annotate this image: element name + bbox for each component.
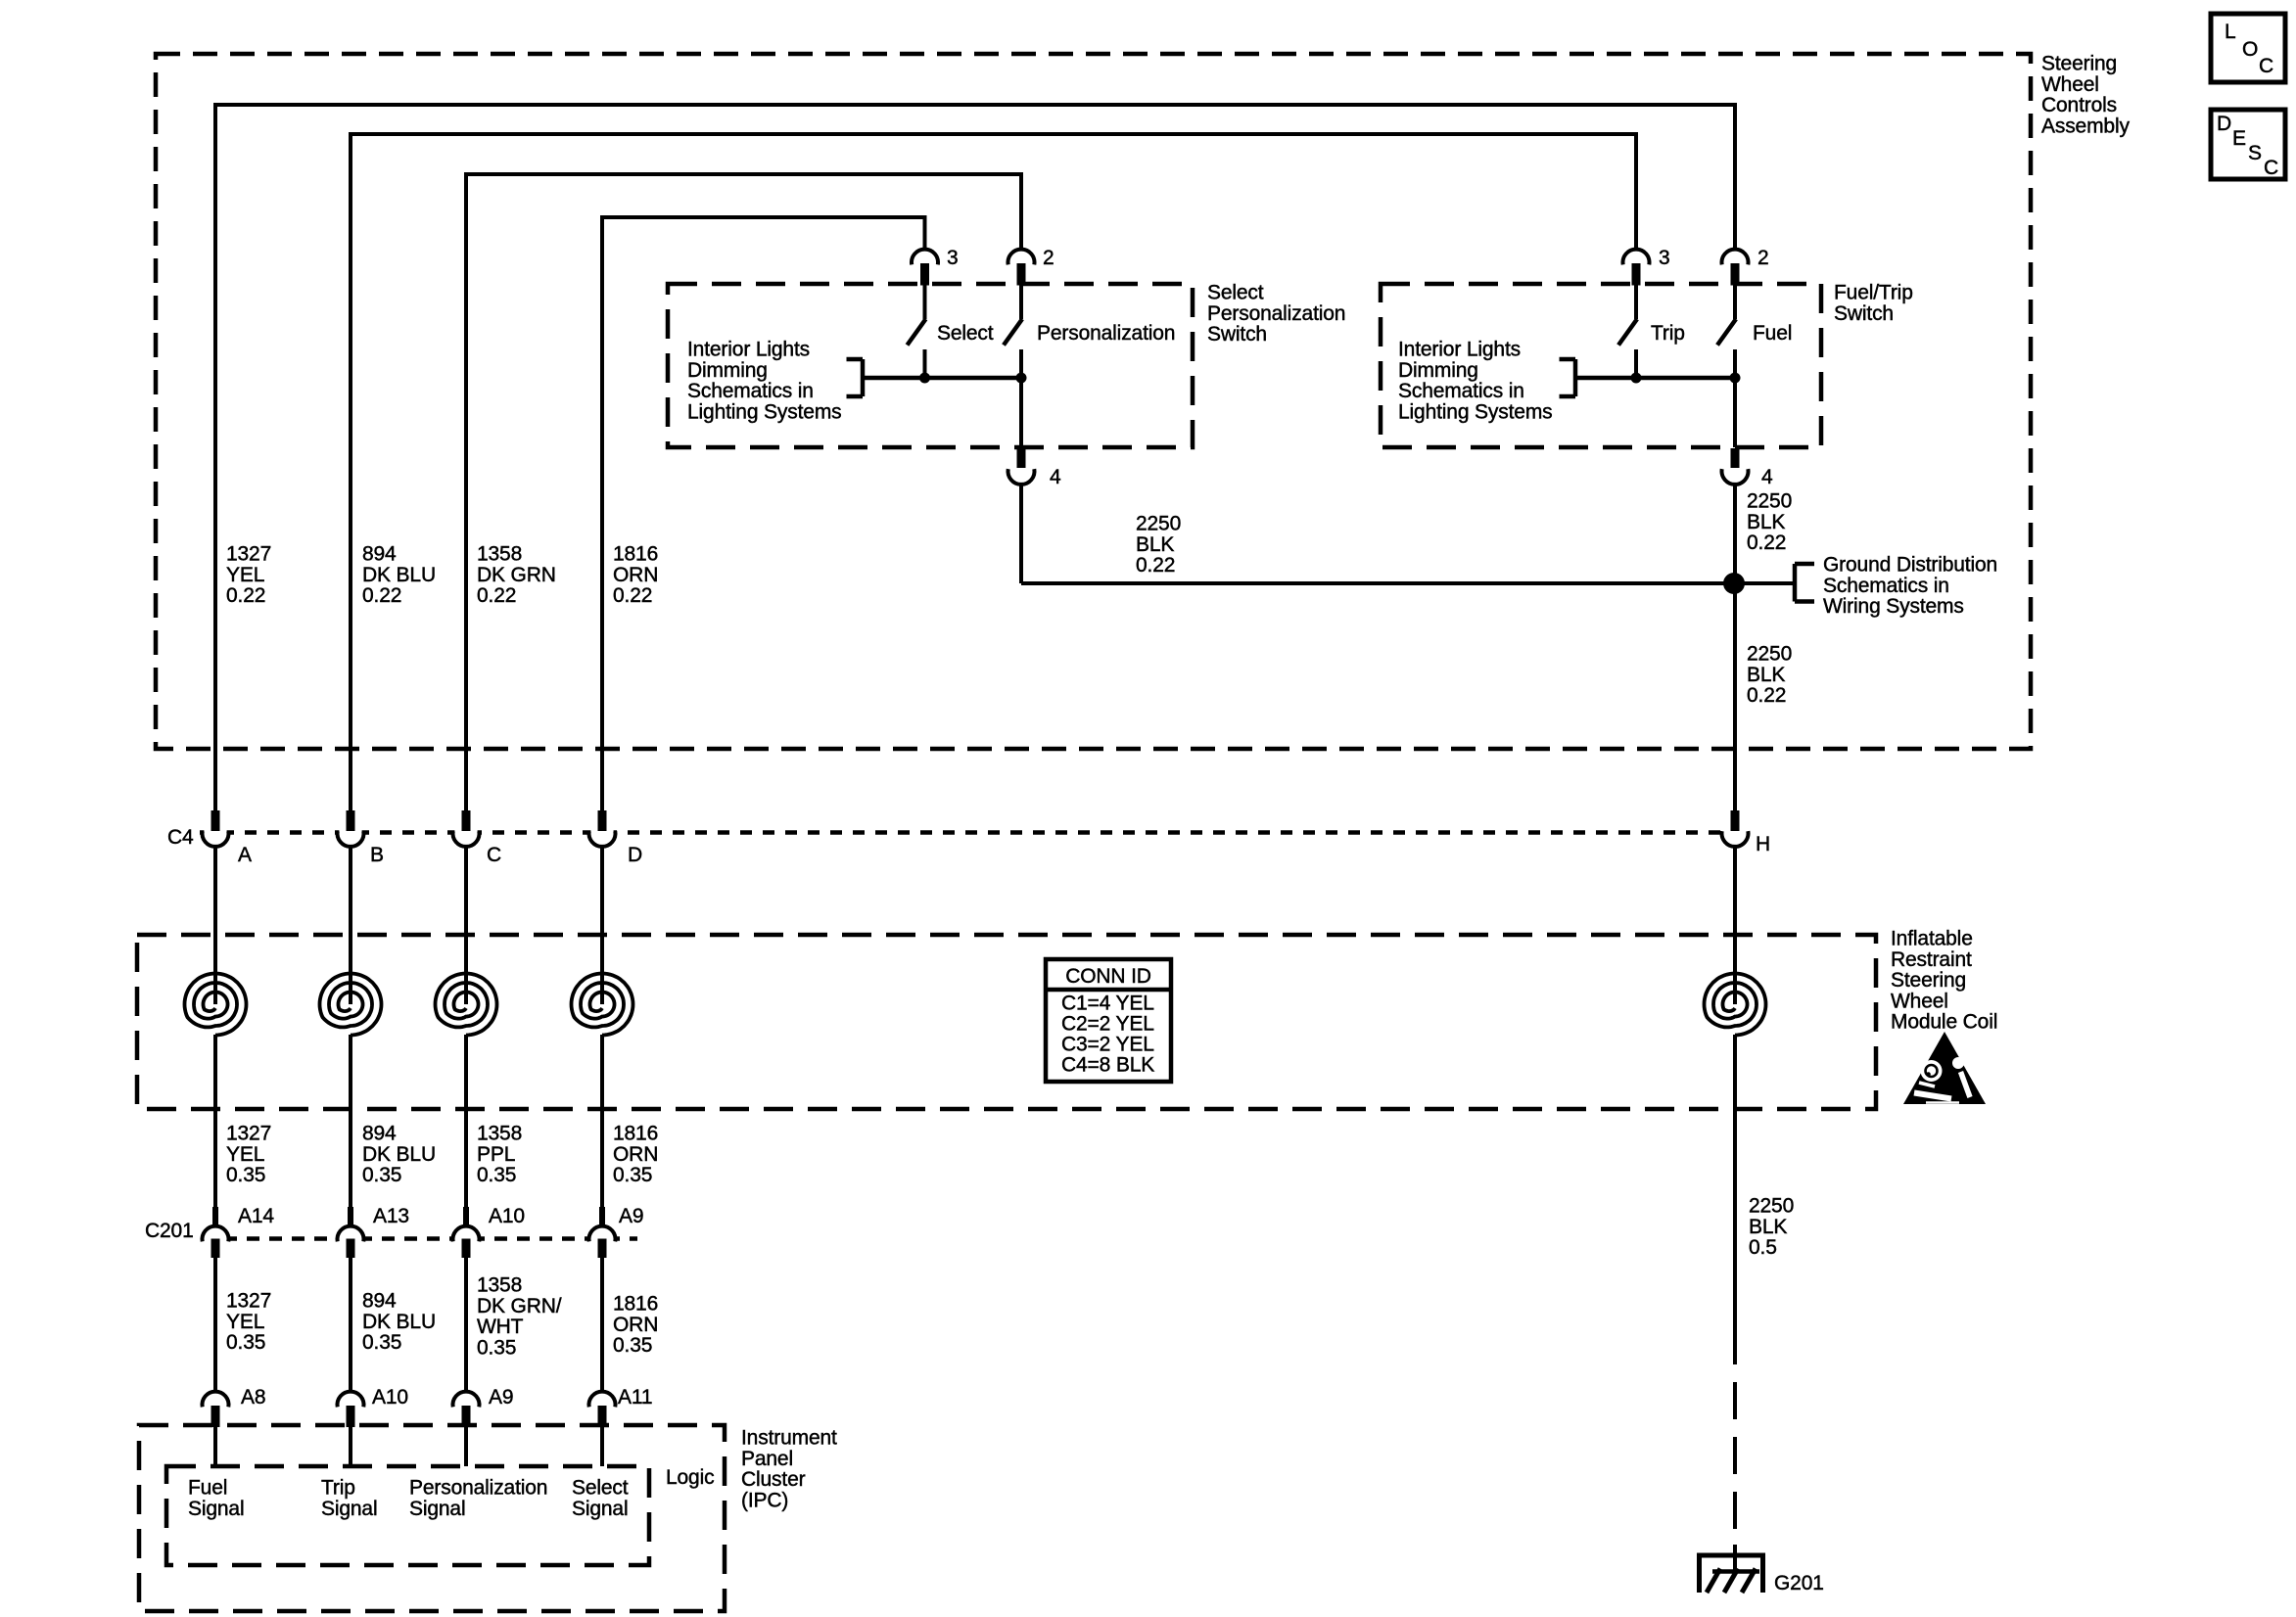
svg-text:DK BLU: DK BLU xyxy=(362,564,436,586)
svg-text:1358: 1358 xyxy=(477,1123,522,1145)
svg-text:3: 3 xyxy=(1659,247,1670,269)
svg-text:0.35: 0.35 xyxy=(477,1336,516,1359)
svg-text:894: 894 xyxy=(362,1290,397,1313)
svg-text:C4: C4 xyxy=(167,826,194,849)
svg-text:Switch: Switch xyxy=(1207,323,1267,346)
svg-text:Trip: Trip xyxy=(1651,322,1685,345)
svg-text:2250: 2250 xyxy=(1749,1195,1794,1218)
svg-text:BLK: BLK xyxy=(1747,511,1785,533)
svg-text:2250: 2250 xyxy=(1747,643,1792,666)
svg-text:2250: 2250 xyxy=(1136,513,1181,535)
svg-text:A9: A9 xyxy=(489,1386,513,1409)
svg-text:Select: Select xyxy=(937,322,994,345)
svg-text:Wiring Systems: Wiring Systems xyxy=(1823,595,1964,618)
svg-text:Controls: Controls xyxy=(2041,94,2117,116)
svg-text:Wheel: Wheel xyxy=(1891,990,1948,1012)
svg-text:C: C xyxy=(2259,55,2273,77)
svg-text:C: C xyxy=(487,844,501,866)
svg-text:Inflatable: Inflatable xyxy=(1891,928,1973,950)
svg-text:H: H xyxy=(1756,833,1770,855)
svg-text:A10: A10 xyxy=(372,1386,408,1409)
svg-text:E: E xyxy=(2232,127,2246,150)
svg-text:Personalization: Personalization xyxy=(409,1477,547,1500)
svg-text:0.35: 0.35 xyxy=(477,1164,516,1186)
svg-text:YEL: YEL xyxy=(226,564,264,586)
svg-text:Ground Distribution: Ground Distribution xyxy=(1823,554,1997,577)
svg-text:BLK: BLK xyxy=(1749,1216,1787,1238)
svg-text:Instrument: Instrument xyxy=(741,1427,837,1450)
svg-text:ORN: ORN xyxy=(613,564,658,586)
svg-text:(IPC): (IPC) xyxy=(741,1489,788,1511)
svg-text:0.35: 0.35 xyxy=(362,1331,401,1354)
svg-text:0.22: 0.22 xyxy=(477,584,516,607)
svg-text:0.35: 0.35 xyxy=(226,1331,265,1354)
svg-text:Select: Select xyxy=(1207,282,1264,304)
svg-text:Fuel: Fuel xyxy=(1753,322,1792,345)
svg-text:0.35: 0.35 xyxy=(613,1164,652,1186)
svg-text:Personalization: Personalization xyxy=(1207,302,1345,325)
svg-text:0.22: 0.22 xyxy=(1747,531,1786,554)
svg-text:Steering: Steering xyxy=(1891,969,1966,992)
svg-text:2: 2 xyxy=(1043,247,1054,269)
svg-text:1327: 1327 xyxy=(226,1290,271,1313)
svg-text:Signal: Signal xyxy=(409,1498,465,1520)
svg-text:DK GRN/: DK GRN/ xyxy=(477,1295,562,1317)
svg-text:2250: 2250 xyxy=(1747,490,1792,513)
svg-text:0.35: 0.35 xyxy=(362,1164,401,1186)
svg-text:2: 2 xyxy=(1757,247,1769,269)
svg-text:Switch: Switch xyxy=(1834,302,1894,325)
svg-text:C4=8 BLK: C4=8 BLK xyxy=(1061,1054,1154,1077)
svg-text:Select: Select xyxy=(572,1477,629,1500)
svg-text:Signal: Signal xyxy=(572,1498,628,1520)
svg-text:A9: A9 xyxy=(619,1205,643,1227)
svg-text:0.22: 0.22 xyxy=(226,584,265,607)
svg-text:1327: 1327 xyxy=(226,543,271,566)
svg-text:1358: 1358 xyxy=(477,543,522,566)
svg-text:PPL: PPL xyxy=(477,1143,515,1166)
svg-text:Dimming: Dimming xyxy=(1398,359,1478,382)
svg-text:Lighting Systems: Lighting Systems xyxy=(687,400,842,423)
svg-text:Cluster: Cluster xyxy=(741,1468,806,1491)
svg-text:Assembly: Assembly xyxy=(2041,115,2130,137)
svg-text:0.5: 0.5 xyxy=(1749,1236,1777,1259)
svg-text:O: O xyxy=(2242,38,2258,61)
svg-text:0.22: 0.22 xyxy=(362,584,401,607)
svg-text:Interior Lights: Interior Lights xyxy=(1398,339,1521,361)
svg-text:1816: 1816 xyxy=(613,543,658,566)
svg-text:Module Coil: Module Coil xyxy=(1891,1011,1997,1034)
svg-text:0.22: 0.22 xyxy=(1747,684,1786,707)
svg-text:Restraint: Restraint xyxy=(1891,948,1972,971)
svg-text:C: C xyxy=(2264,157,2278,179)
svg-text:S: S xyxy=(2248,142,2262,164)
svg-text:Interior Lights: Interior Lights xyxy=(687,339,810,361)
svg-text:A: A xyxy=(238,844,252,866)
svg-text:Fuel/Trip: Fuel/Trip xyxy=(1834,282,1913,304)
svg-text:Trip: Trip xyxy=(321,1477,355,1500)
svg-text:0.22: 0.22 xyxy=(613,584,652,607)
svg-text:G201: G201 xyxy=(1774,1572,1824,1594)
svg-text:Signal: Signal xyxy=(321,1498,377,1520)
svg-text:1327: 1327 xyxy=(226,1123,271,1145)
svg-text:B: B xyxy=(370,844,384,866)
svg-text:Schematics in: Schematics in xyxy=(1398,380,1524,402)
svg-text:C201: C201 xyxy=(145,1220,194,1242)
svg-text:BLK: BLK xyxy=(1747,664,1785,686)
svg-text:A13: A13 xyxy=(373,1205,409,1227)
svg-text:Schematics in: Schematics in xyxy=(687,380,814,402)
svg-text:Dimming: Dimming xyxy=(687,359,768,382)
svg-text:ORN: ORN xyxy=(613,1314,658,1336)
svg-text:DK BLU: DK BLU xyxy=(362,1143,436,1166)
svg-text:Fuel: Fuel xyxy=(188,1477,227,1500)
svg-text:1816: 1816 xyxy=(613,1123,658,1145)
svg-text:DK BLU: DK BLU xyxy=(362,1311,436,1333)
svg-text:Personalization: Personalization xyxy=(1037,322,1175,345)
svg-text:Wheel: Wheel xyxy=(2041,73,2099,96)
svg-text:ORN: ORN xyxy=(613,1143,658,1166)
svg-text:894: 894 xyxy=(362,543,397,566)
svg-text:A10: A10 xyxy=(489,1205,525,1227)
svg-text:L: L xyxy=(2225,21,2236,43)
svg-text:0.35: 0.35 xyxy=(613,1334,652,1357)
svg-text:3: 3 xyxy=(947,247,959,269)
svg-text:Steering: Steering xyxy=(2041,53,2117,75)
svg-text:Lighting Systems: Lighting Systems xyxy=(1398,400,1553,423)
svg-text:A11: A11 xyxy=(618,1386,652,1409)
svg-text:Schematics in: Schematics in xyxy=(1823,575,1949,597)
svg-text:A14: A14 xyxy=(238,1205,274,1227)
svg-text:YEL: YEL xyxy=(226,1143,264,1166)
svg-text:C2=2 YEL: C2=2 YEL xyxy=(1061,1013,1154,1036)
svg-text:CONN ID: CONN ID xyxy=(1065,965,1151,988)
svg-text:0.22: 0.22 xyxy=(1136,554,1175,577)
svg-text:WHT: WHT xyxy=(477,1316,524,1338)
svg-text:1816: 1816 xyxy=(613,1293,658,1316)
svg-text:Panel: Panel xyxy=(741,1448,793,1470)
svg-text:YEL: YEL xyxy=(226,1311,264,1333)
svg-text:A8: A8 xyxy=(241,1386,265,1409)
svg-text:894: 894 xyxy=(362,1123,397,1145)
svg-text:D: D xyxy=(2217,113,2231,135)
svg-text:4: 4 xyxy=(1761,466,1773,488)
svg-text:C3=2 YEL: C3=2 YEL xyxy=(1061,1034,1154,1056)
svg-text:1358: 1358 xyxy=(477,1274,522,1297)
svg-text:BLK: BLK xyxy=(1136,533,1174,556)
svg-text:Signal: Signal xyxy=(188,1498,244,1520)
svg-text:DK GRN: DK GRN xyxy=(477,564,556,586)
svg-text:D: D xyxy=(628,844,642,866)
svg-text:4: 4 xyxy=(1050,466,1061,488)
svg-text:0.35: 0.35 xyxy=(226,1164,265,1186)
svg-text:Logic: Logic xyxy=(666,1466,714,1489)
svg-text:C1=4 YEL: C1=4 YEL xyxy=(1061,993,1154,1015)
